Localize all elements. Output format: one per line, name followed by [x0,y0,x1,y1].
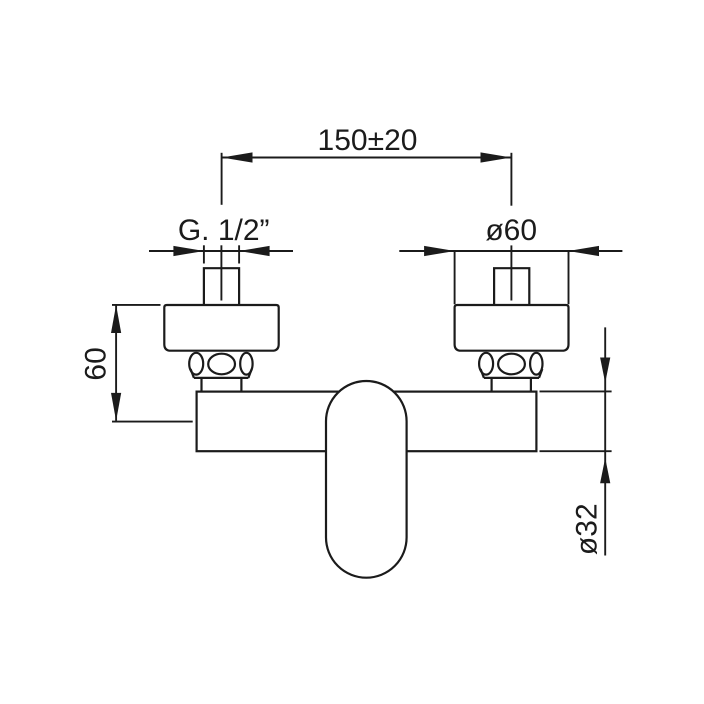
svg-text:G. 1/2”: G. 1/2” [178,214,270,247]
svg-text:150±20: 150±20 [318,124,418,157]
svg-text:ø32: ø32 [571,503,604,555]
svg-text:ø60: ø60 [485,214,537,247]
svg-text:60: 60 [80,347,113,380]
